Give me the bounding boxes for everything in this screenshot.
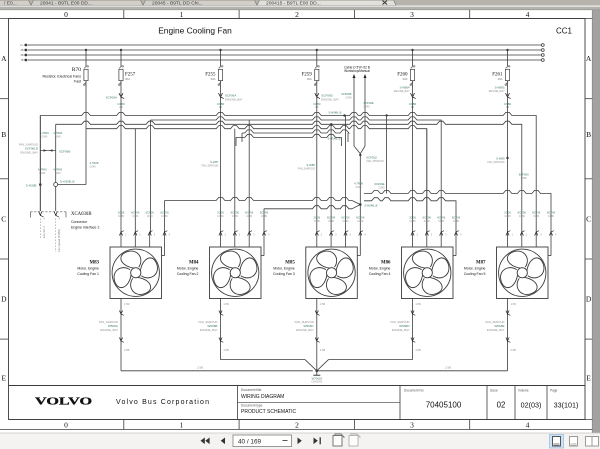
svg-text:M87: M87	[476, 261, 486, 266]
svg-text:Fast: Fast	[74, 79, 81, 83]
svg-text:M86: M86	[381, 261, 391, 266]
svg-text:4: 4	[526, 10, 530, 19]
svg-text:S-H30B: S-H30B	[26, 183, 37, 187]
svg-text:C080: C080	[505, 215, 512, 218]
svg-text:Motor, Engine: Motor, Engine	[77, 267, 99, 271]
svg-text:C040: C040	[364, 106, 371, 109]
svg-text:Cooling Fan 5: Cooling Fan 5	[464, 272, 486, 276]
svg-text:C080: C080	[548, 215, 555, 218]
svg-text:4.7R08: 4.7R08	[90, 161, 99, 165]
svg-text:ENGINE_BAY: ENGINE_BAY	[487, 328, 505, 332]
svg-text:C080: C080	[118, 215, 125, 218]
svg-text:70405100: 70405100	[426, 401, 462, 410]
svg-text:2C06: 2C06	[217, 211, 224, 215]
svg-text:4.7R06: 4.7R06	[40, 131, 49, 135]
svg-text:C080: C080	[232, 215, 239, 218]
svg-text:S-W865: S-W865	[495, 86, 505, 90]
svg-text:F+: F+	[20, 43, 24, 47]
svg-text:C040: C040	[41, 136, 48, 139]
svg-text:WIRING DIAGRAM: WIRING DIAGRAM	[241, 394, 284, 400]
svg-text:S-H30B_B: S-H30B_B	[60, 179, 75, 183]
svg-text:C040: C040	[346, 97, 353, 100]
svg-text:Issue: Issue	[490, 389, 498, 393]
svg-text:4.7R06: 4.7R06	[38, 168, 47, 172]
svg-text:XCA030B: XCA030B	[71, 212, 92, 217]
svg-text:Cooling Fan 1: Cooling Fan 1	[77, 272, 99, 276]
svg-text:30A: 30A	[125, 77, 130, 81]
svg-text:C080: C080	[533, 215, 540, 218]
svg-text:2.5B: 2.5B	[124, 348, 130, 352]
svg-text:Fan speed (PWM): Fan speed (PWM)	[57, 229, 61, 252]
svg-text:Engine Interface 2: Engine Interface 2	[71, 225, 99, 229]
svg-text:0: 0	[64, 421, 68, 430]
svg-text:M83: M83	[89, 261, 99, 266]
svg-text:Volvo Bus Corporation: Volvo Bus Corporation	[116, 399, 209, 406]
svg-text:B: B	[586, 130, 591, 139]
svg-text:C080: C080	[261, 215, 268, 218]
svg-text:Motor, Engine: Motor, Engine	[177, 267, 199, 271]
svg-text:2.5B: 2.5B	[511, 348, 517, 352]
svg-text:4.7R06: 4.7R06	[53, 168, 62, 172]
svg-text:6CF06: 6CF06	[146, 211, 155, 215]
svg-text:2C06: 2C06	[314, 216, 321, 220]
svg-text:PRODUCT SCHEMATIC: PRODUCT SCHEMATIC	[241, 409, 296, 415]
svg-text:6CF06: 6CF06	[356, 216, 365, 220]
svg-text:Cooling Fan 2: Cooling Fan 2	[177, 272, 199, 276]
svg-text:6CF06E: 6CF06E	[364, 101, 374, 105]
svg-text:B: B	[1, 130, 6, 139]
svg-text:S-W87: S-W87	[210, 160, 219, 164]
svg-text:C080: C080	[328, 220, 335, 223]
svg-text:SCF06A: SCF06A	[106, 95, 117, 99]
svg-text:02: 02	[497, 401, 506, 410]
svg-text:C040: C040	[55, 136, 62, 139]
svg-text:20045 - B9TL DD Chi...: 20045 - B9TL DD Chi...	[152, 0, 203, 6]
svg-text:FAN_SHROUD: FAN_SHROUD	[367, 160, 384, 163]
svg-text:ENGINE_BAY: ENGINE_BAY	[296, 328, 314, 332]
svg-text:FAN_SHROUD: FAN_SHROUD	[201, 165, 218, 168]
svg-text:40 / 169: 40 / 169	[238, 439, 262, 446]
svg-text:M85: M85	[285, 261, 295, 266]
svg-text:4.7R06: 4.7R06	[53, 131, 62, 135]
svg-text:1: 1	[180, 421, 184, 430]
svg-text:ENGINE_BAY: ENGINE_BAY	[394, 90, 410, 93]
svg-text:3: 3	[410, 10, 414, 19]
svg-text:C080: C080	[453, 220, 460, 223]
svg-text:2.5B: 2.5B	[320, 348, 326, 352]
svg-text:6CF06: 6CF06	[341, 216, 350, 220]
svg-text:FAN_SHROUD: FAN_SHROUD	[298, 168, 315, 171]
svg-text:ENGINE_BAY: ENGINE_BAY	[321, 97, 339, 101]
svg-text:2.5B: 2.5B	[197, 366, 203, 370]
svg-text:C080: C080	[147, 215, 154, 218]
svg-text:Motor, Engine: Motor, Engine	[369, 267, 391, 271]
svg-text:1.5R: 1.5R	[124, 302, 130, 306]
svg-text:3: 3	[410, 421, 414, 430]
svg-text:C080: C080	[246, 215, 253, 218]
svg-text:Resistor, Electrical Fans: Resistor, Electrical Fans	[42, 74, 81, 78]
svg-text:CHASSIS: CHASSIS	[311, 381, 322, 384]
svg-text:Engine Cooling Fan: Engine Cooling Fan	[158, 26, 232, 36]
svg-text:6CF06: 6CF06	[160, 211, 169, 215]
svg-text:ENGINE_BAY: ENGINE_BAY	[225, 97, 243, 101]
svg-text:02(03): 02(03)	[521, 401, 542, 410]
svg-text:C080: C080	[424, 220, 431, 223]
svg-text:1.5R: 1.5R	[320, 302, 326, 306]
svg-text:4: 4	[526, 421, 530, 430]
svg-text:2.5B: 2.5B	[445, 366, 451, 370]
svg-text:CC1: CC1	[556, 27, 573, 36]
svg-text:1.5R: 1.5R	[416, 302, 422, 306]
svg-text:S-H04B_B: S-H04B_B	[365, 204, 378, 208]
svg-text:FAN_SHROUD: FAN_SHROUD	[487, 161, 504, 164]
svg-text:2C06: 2C06	[409, 216, 416, 220]
svg-text:Document type: Document type	[241, 404, 263, 408]
svg-text:C080: C080	[132, 215, 139, 218]
svg-text:Motor, Engine: Motor, Engine	[273, 267, 295, 271]
svg-text:6CF06E: 6CF06E	[374, 182, 384, 186]
svg-text:C040: C040	[90, 166, 97, 169]
svg-text:2.5B: 2.5B	[224, 348, 230, 352]
svg-text:S-W89: S-W89	[496, 157, 505, 161]
svg-text:Workshop/Manual: Workshop/Manual	[344, 69, 370, 73]
svg-text:20041 - B9TL E00 DD...: 20041 - B9TL E00 DD...	[40, 0, 92, 6]
svg-text:Page: Page	[550, 389, 558, 393]
svg-text:R70: R70	[72, 67, 81, 73]
svg-text:6CF06: 6CF06	[245, 211, 254, 215]
svg-text:6CF06X: 6CF06X	[519, 173, 529, 177]
svg-text:0: 0	[64, 10, 68, 19]
svg-text:ENGINE_BAY: ENGINE_BAY	[392, 328, 410, 332]
svg-text:1: 1	[180, 10, 184, 19]
svg-text:Volume: Volume	[518, 389, 529, 393]
svg-text:2C06: 2C06	[504, 211, 511, 215]
svg-text:C080: C080	[343, 220, 350, 223]
svg-text:Cooling Fan 4: Cooling Fan 4	[369, 272, 391, 276]
svg-text:E: E	[586, 374, 591, 383]
svg-text:C080: C080	[521, 177, 528, 180]
svg-text:2: 2	[295, 10, 299, 19]
svg-text:S-W88: S-W88	[306, 163, 315, 167]
svg-text:ENGINE_BAY: ENGINE_BAY	[200, 328, 218, 332]
svg-text:2.5B: 2.5B	[416, 348, 422, 352]
svg-text:C080: C080	[410, 220, 417, 223]
svg-text:M84: M84	[189, 261, 199, 266]
svg-text:C080: C080	[519, 215, 526, 218]
svg-text:/ E0...: / E0...	[4, 0, 17, 6]
svg-text:C080: C080	[314, 220, 321, 223]
svg-text:D: D	[1, 295, 7, 304]
svg-text:33(101): 33(101)	[554, 401, 579, 410]
svg-text:1.5R: 1.5R	[224, 302, 230, 306]
svg-text:30A: 30A	[403, 77, 408, 81]
svg-text:VOLVO: VOLVO	[35, 397, 92, 408]
svg-text:4B: 4B	[20, 48, 23, 52]
svg-text:ENGINE_BAY: ENGINE_BAY	[20, 151, 38, 155]
svg-text:ENGINE_BAY: ENGINE_BAY	[489, 90, 505, 93]
svg-text:6CF06: 6CF06	[518, 211, 527, 215]
svg-text:Connector: Connector	[71, 220, 88, 224]
svg-text:C080: C080	[162, 215, 169, 218]
svg-text:4B: 4B	[20, 53, 23, 57]
svg-text:6CF06: 6CF06	[327, 216, 336, 220]
svg-text:30A: 30A	[307, 77, 312, 81]
svg-text:1.5R: 1.5R	[511, 302, 517, 306]
svg-text:6CF06LI: 6CF06LI	[367, 156, 378, 160]
svg-text:Document No: Document No	[404, 389, 424, 393]
svg-text:A: A	[586, 54, 592, 63]
svg-text:C080: C080	[218, 215, 225, 218]
svg-text:2: 2	[295, 421, 299, 430]
svg-text:7B: 7B	[20, 58, 23, 62]
svg-text:6CF06: 6CF06	[260, 211, 269, 215]
svg-text:A: A	[1, 54, 7, 63]
svg-text:C: C	[586, 215, 591, 224]
svg-text:6CF06B: 6CF06B	[341, 92, 351, 96]
svg-text:C080: C080	[379, 187, 386, 190]
svg-text:S-W864: S-W864	[400, 86, 410, 90]
svg-text:Eco fan 1: Eco fan 1	[42, 226, 46, 238]
svg-text:6CF06: 6CF06	[452, 216, 461, 220]
svg-text:2C06: 2C06	[118, 211, 125, 215]
svg-text:S-H04B_B: S-H04B_B	[329, 111, 342, 115]
svg-text:Cooling Fan 3: Cooling Fan 3	[273, 272, 295, 276]
svg-text:30A: 30A	[498, 77, 503, 81]
svg-text:C080: C080	[357, 220, 364, 223]
svg-text:6CF06: 6CF06	[547, 211, 556, 215]
svg-text:C: C	[1, 215, 6, 224]
svg-text:6CF06: 6CF06	[437, 216, 446, 220]
svg-text:ENGINE_BAY: ENGINE_BAY	[100, 328, 118, 332]
svg-text:6CF06: 6CF06	[131, 211, 140, 215]
svg-text:S-H04B_B: S-H04B_B	[328, 137, 341, 141]
svg-text:6CF06: 6CF06	[532, 211, 541, 215]
svg-text:C040: C040	[356, 186, 363, 189]
svg-text:6CF06: 6CF06	[231, 211, 240, 215]
svg-text:Document title: Document title	[241, 388, 262, 392]
svg-text:Motor, Engine: Motor, Engine	[464, 267, 486, 271]
svg-text:C040: C040	[55, 172, 62, 175]
svg-text:4.7R06: 4.7R06	[354, 182, 363, 186]
svg-text:D: D	[586, 295, 592, 304]
svg-text:30A: 30A	[211, 77, 216, 81]
svg-text:6CF06: 6CF06	[423, 216, 432, 220]
svg-text:200415 - B9TL E00 DD...: 200415 - B9TL E00 DD...	[266, 0, 321, 6]
svg-text:SCF06B: SCF06B	[59, 150, 70, 154]
svg-text:C080: C080	[438, 220, 445, 223]
svg-text:E: E	[2, 374, 7, 383]
